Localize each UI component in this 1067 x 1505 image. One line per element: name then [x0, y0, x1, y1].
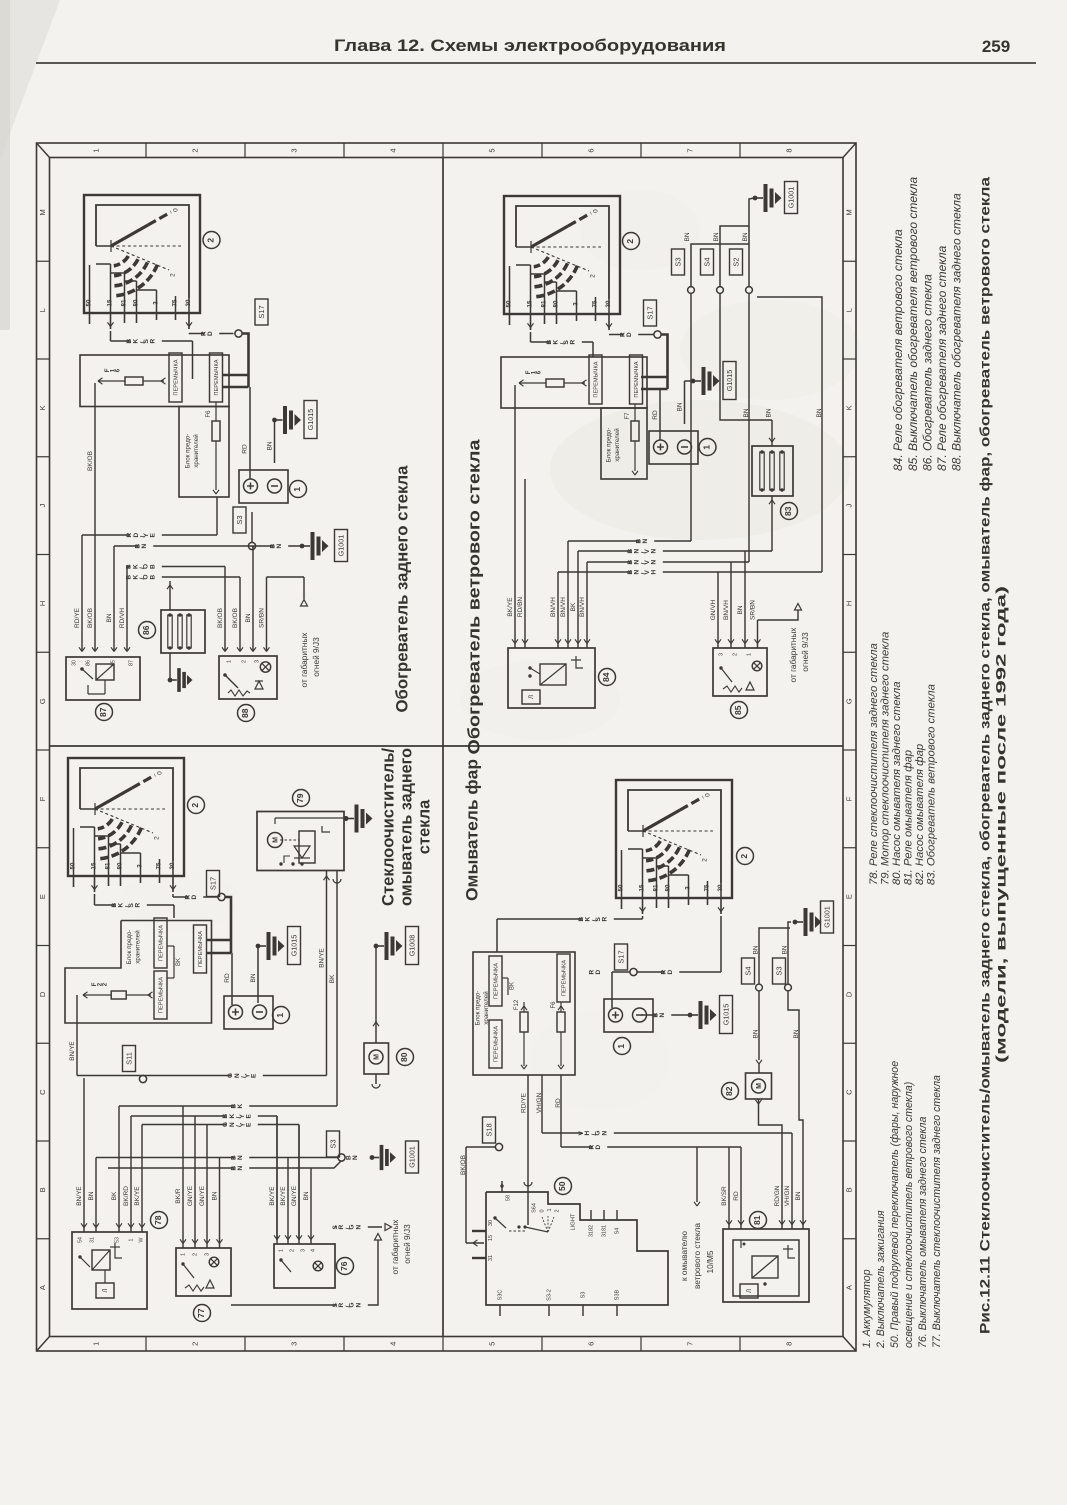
svg-text:BN: BN [635, 537, 649, 544]
svg-text:2: 2 [190, 803, 200, 808]
svg-text:30: 30 [717, 884, 724, 891]
svg-text:B: B [38, 1187, 47, 1192]
svg-text:ПЕРЕМЫЧКА: ПЕРЕМЫЧКА [159, 925, 165, 961]
svg-text:Обогреватель ветрового стекла: Обогреватель ветрового стекла [464, 439, 483, 755]
svg-text:Обогреватель заднего стекла: Обогреватель заднего стекла [392, 465, 411, 713]
svg-text:ПЕРЕМЫЧКА: ПЕРЕМЫЧКА [214, 359, 220, 395]
svg-text:15: 15 [527, 300, 534, 307]
svg-text:1: 1 [91, 1342, 100, 1346]
svg-text:1: 1 [275, 1013, 285, 1018]
svg-text:0: 0 [593, 209, 600, 213]
svg-text:GN/YE: GN/YE [187, 1185, 194, 1206]
svg-text:BN: BN [245, 613, 252, 622]
svg-text:A: A [844, 1285, 853, 1290]
svg-text:1: 1 [91, 148, 100, 152]
svg-text:2: 2 [154, 836, 161, 840]
svg-text:58: 58 [505, 1195, 511, 1201]
svg-text:F16: F16 [526, 369, 543, 374]
svg-text:Блок предо-: Блок предо- [185, 434, 192, 469]
svg-text:BN: BN [713, 232, 720, 241]
svg-text:80: 80 [399, 1052, 409, 1062]
svg-text:81: 81 [105, 862, 112, 869]
svg-text:RD/VH: RD/VH [119, 608, 126, 629]
svg-text:BN: BN [88, 1191, 95, 1200]
svg-text:M: M [756, 1083, 763, 1089]
svg-text:80. Насос омывателя заднего с: 80. Насос омывателя заднего стекла [891, 682, 903, 885]
svg-text:5: 5 [487, 148, 496, 152]
svg-text:75: 75 [592, 300, 599, 307]
svg-text:S3C: S3C [497, 1290, 503, 1301]
svg-text:S18: S18 [484, 1123, 493, 1136]
svg-text:1: 1 [616, 1044, 626, 1049]
svg-text:5: 5 [487, 1342, 496, 1346]
svg-text:BK: BK [570, 602, 577, 611]
svg-text:J: J [38, 504, 47, 508]
svg-text:G1015: G1015 [306, 409, 315, 431]
svg-text:BK/OB: BK/OB [232, 608, 239, 628]
svg-text:83: 83 [783, 506, 793, 516]
svg-text:освещение и стеклоочиститель в: освещение и стеклоочиститель ветрового с… [903, 1082, 915, 1348]
svg-text:30: 30 [169, 862, 176, 869]
svg-text:BN/VH: BN/VH [723, 600, 730, 620]
svg-text:S3: S3 [580, 1292, 586, 1299]
svg-text:C: C [844, 1089, 853, 1095]
svg-text:1: 1 [278, 1249, 284, 1252]
svg-text:80: 80 [665, 884, 672, 891]
svg-text:RD: RD [733, 1191, 740, 1201]
svg-text:84: 84 [601, 672, 611, 682]
svg-text:15: 15 [91, 862, 98, 869]
svg-text:80: 80 [553, 300, 560, 307]
svg-text:88: 88 [240, 708, 250, 718]
svg-text:75: 75 [156, 862, 163, 869]
svg-text:RD: RD [555, 1098, 562, 1108]
svg-text:LIGHT: LIGHT [571, 1213, 577, 1231]
svg-text:50: 50 [557, 1181, 567, 1191]
svg-text:86. Обогреватель заднего стек: 86. Обогреватель заднего стекла [920, 274, 934, 471]
svg-text:BK/SR: BK/SR [721, 1186, 728, 1206]
svg-text:77. Выключатель стеклоочистит: 77. Выключатель стеклоочистителя заднего… [931, 1075, 943, 1348]
svg-text:BK: BK [230, 1102, 244, 1109]
svg-text:83. Обогреватель ветрового ст: 83. Обогреватель ветрового стекла [925, 684, 937, 885]
svg-text:0: 0 [705, 793, 712, 797]
svg-text:4: 4 [310, 1249, 316, 1252]
svg-text:F16: F16 [105, 367, 122, 372]
svg-text:Омыватель фар: Омыватель фар [462, 759, 481, 901]
svg-text:D: D [38, 991, 47, 997]
svg-text:W: W [138, 1237, 144, 1242]
svg-text:7: 7 [685, 148, 694, 152]
svg-text:стекла: стекла [415, 799, 433, 854]
svg-text:3: 3 [137, 864, 144, 868]
svg-text:3: 3 [300, 1249, 306, 1252]
svg-text:2: 2 [192, 1253, 198, 1256]
svg-text:BN: BN [684, 232, 691, 241]
svg-text:0: 0 [173, 208, 180, 212]
svg-text:10/М5: 10/М5 [705, 1250, 715, 1273]
svg-text:BN: BN [743, 408, 750, 417]
svg-text:0: 0 [157, 771, 164, 775]
svg-text:Глава 12. Схемы электрооборудо: Глава 12. Схемы электрооборудования [334, 36, 726, 55]
svg-text:3: 3 [153, 301, 160, 305]
svg-text:L: L [844, 308, 853, 312]
svg-text:86: 86 [85, 660, 91, 666]
svg-text:81: 81 [541, 300, 548, 307]
svg-text:E: E [38, 894, 47, 899]
svg-text:RD: RD [619, 330, 633, 337]
svg-text:BN: BN [212, 1191, 219, 1200]
svg-text:S17: S17 [645, 306, 654, 319]
svg-text:79: 79 [295, 793, 305, 803]
svg-text:хранителей: хранителей [483, 991, 490, 1025]
svg-text:BN: BN [250, 973, 257, 982]
svg-text:G: G [844, 698, 853, 704]
svg-text:ПЕРЕМЫЧКА: ПЕРЕМЫЧКА [159, 977, 165, 1013]
svg-text:RD/BN: RD/BN [517, 597, 524, 618]
svg-text:75: 75 [172, 299, 179, 306]
svg-text:76. Выключатель омывателя зад: 76. Выключатель омывателя заднего стекла [917, 1116, 929, 1348]
svg-text:GN/YE: GN/YE [199, 1185, 206, 1206]
svg-text:BN/VH: BN/VH [560, 597, 567, 617]
svg-text:Рис.12.11 Стеклоочиститель/омы: Рис.12.11 Стеклоочиститель/омыватель зад… [977, 177, 993, 1334]
svg-text:15: 15 [488, 1235, 494, 1241]
svg-text:BN: BN [737, 605, 744, 614]
svg-text:H: H [38, 601, 47, 606]
svg-text:BN: BN [345, 1153, 359, 1160]
svg-text:от габаритных: от габаритных [299, 632, 309, 688]
svg-text:81. Реле омывателя фар: 81. Реле омывателя фар [902, 750, 914, 885]
svg-text:RD: RD [660, 968, 674, 975]
svg-text:4: 4 [388, 1342, 397, 1346]
svg-text:3: 3 [289, 148, 298, 152]
svg-text:RD/YE: RD/YE [74, 607, 81, 628]
svg-text:78: 78 [153, 1215, 163, 1225]
svg-text:RD: RD [184, 893, 198, 900]
svg-text:7: 7 [685, 1342, 694, 1346]
svg-text:87: 87 [128, 660, 134, 666]
svg-text:15: 15 [107, 299, 114, 306]
svg-text:S2: S2 [731, 257, 740, 266]
svg-text:0: 0 [539, 1209, 545, 1212]
svg-text:S17: S17 [257, 305, 266, 318]
svg-text:1: 1 [547, 1208, 553, 1211]
svg-text:VH/GN: VH/GN [784, 1185, 791, 1206]
svg-text:BN: BN [230, 1153, 244, 1160]
svg-text:L: L [38, 308, 47, 312]
svg-text:80: 80 [133, 299, 140, 306]
svg-text:огней 9/J3: огней 9/J3 [402, 1224, 412, 1264]
svg-text:2: 2 [190, 148, 199, 152]
svg-text:BN/YE: BN/YE [69, 1041, 76, 1061]
svg-text:31: 31 [488, 1255, 494, 1261]
svg-text:84. Реле обогревателя ветрово: 84. Реле обогревателя ветрового стекла [891, 229, 905, 471]
svg-text:81: 81 [121, 299, 128, 306]
svg-text:2: 2 [702, 858, 709, 862]
svg-text:BK/OB: BK/OB [460, 1155, 467, 1175]
svg-text:81: 81 [653, 884, 660, 891]
svg-text:BN: BN [793, 1029, 800, 1038]
svg-text:F12: F12 [514, 999, 520, 1010]
svg-text:Л: Л [529, 695, 535, 699]
svg-text:BK/YE: BK/YE [280, 1186, 287, 1206]
svg-text:3181: 3181 [601, 1225, 607, 1237]
svg-text:M: M [38, 209, 47, 215]
svg-text:2: 2 [739, 854, 749, 859]
svg-text:BN: BN [230, 1164, 244, 1171]
svg-text:RD: RD [242, 444, 249, 454]
svg-text:F: F [844, 796, 853, 801]
svg-text:Блок предо-: Блок предо- [606, 428, 613, 463]
svg-text:от габаритных: от габаритных [390, 1219, 400, 1275]
svg-text:1: 1 [180, 1253, 186, 1256]
svg-text:ПЕРЕМЫЧКА: ПЕРЕМЫЧКА [494, 963, 500, 999]
svg-text:87. Реле обогревателя заднего: 87. Реле обогревателя заднего стекла [935, 245, 949, 471]
svg-text:8: 8 [784, 148, 793, 152]
svg-text:D: D [844, 991, 853, 997]
svg-text:ветрового стекла: ветрового стекла [692, 1223, 702, 1289]
svg-text:S4: S4 [743, 966, 752, 975]
svg-text:S3-2: S3-2 [546, 1289, 552, 1301]
svg-text:G: G [38, 698, 47, 704]
svg-text:80: 80 [117, 862, 124, 869]
svg-text:30: 30 [185, 299, 192, 306]
svg-text:BK/OB: BK/OB [87, 608, 94, 628]
svg-text:50: 50 [506, 300, 513, 307]
svg-text:3: 3 [573, 302, 580, 306]
svg-text:75: 75 [704, 884, 711, 891]
svg-text:78. Реле стеклоочистителя зад: 78. Реле стеклоочистителя заднего стекла [868, 643, 880, 885]
svg-text:BN/YE: BN/YE [76, 1186, 83, 1206]
svg-text:79. Мотор стеклоочистителя за: 79. Мотор стеклоочистителя заднего стекл… [879, 632, 891, 885]
svg-text:омыватель заднего: омыватель заднего [397, 748, 415, 906]
svg-text:ПЕРЕМЫЧКА: ПЕРЕМЫЧКА [494, 1026, 500, 1062]
svg-text:ПЕРЕМЫЧКА: ПЕРЕМЫЧКА [562, 960, 568, 996]
svg-text:G1015: G1015 [725, 370, 734, 392]
svg-text:53: 53 [114, 1237, 120, 1243]
svg-text:50: 50 [86, 299, 93, 306]
svg-text:S3: S3 [328, 1139, 337, 1148]
svg-text:Стеклоочиститель/: Стеклоочиститель/ [379, 748, 397, 906]
svg-text:31: 31 [89, 1237, 95, 1243]
svg-text:A: A [38, 1285, 47, 1290]
svg-text:BN: BN [795, 1191, 802, 1200]
svg-text:BK/OB: BK/OB [87, 451, 94, 471]
svg-text:K: K [38, 405, 47, 410]
svg-text:F6: F6 [551, 1001, 557, 1009]
svg-text:RD: RD [652, 410, 659, 420]
svg-text:VH/GN: VH/GN [536, 1092, 543, 1113]
svg-text:K: K [844, 405, 853, 410]
svg-text:огней 9/J3: огней 9/J3 [800, 632, 810, 672]
svg-text:BN/YE: BN/YE [319, 948, 326, 968]
svg-text:G1008: G1008 [407, 935, 416, 957]
svg-text:85: 85 [733, 705, 743, 715]
svg-text:F7: F7 [625, 412, 631, 420]
svg-text:1: 1 [226, 660, 232, 663]
svg-text:2: 2 [190, 1342, 199, 1346]
svg-text:87: 87 [98, 707, 108, 717]
svg-text:от габаритных: от габаритных [788, 627, 798, 683]
svg-text:GN/VH: GN/VH [710, 599, 717, 620]
svg-text:ПЕРЕМЫЧКА: ПЕРЕМЫЧКА [594, 361, 600, 397]
svg-text:S4: S4 [614, 1228, 620, 1235]
svg-text:81: 81 [752, 1215, 762, 1225]
svg-text:S64: S64 [531, 1203, 537, 1213]
svg-text:F22: F22 [92, 981, 109, 986]
svg-text:2: 2 [625, 239, 635, 244]
svg-text:BN: BN [753, 945, 760, 954]
svg-text:ПЕРЕМЫЧКА: ПЕРЕМЫЧКА [634, 361, 640, 397]
svg-text:BN/VH: BN/VH [579, 597, 586, 617]
svg-text:BN: BN [816, 408, 823, 417]
svg-text:S4: S4 [702, 257, 711, 266]
svg-text:SR/BN: SR/BN [259, 608, 266, 628]
svg-text:хранителей: хранителей [614, 428, 621, 462]
svg-text:S3B: S3B [614, 1289, 620, 1300]
svg-text:BN: BN [766, 408, 773, 417]
svg-text:GN/YE: GN/YE [291, 1185, 298, 1206]
svg-text:BN: BN [753, 1029, 760, 1038]
svg-text:3: 3 [718, 653, 724, 656]
svg-text:M: M [844, 209, 853, 215]
svg-text:3: 3 [289, 1342, 298, 1346]
svg-text:G1001: G1001 [407, 1146, 416, 1168]
svg-text:F6: F6 [206, 410, 212, 418]
svg-text:S17: S17 [208, 877, 217, 890]
svg-text:Блок предо-: Блок предо- [475, 991, 482, 1026]
svg-text:E: E [844, 894, 853, 899]
svg-text:86: 86 [141, 625, 151, 635]
svg-text:6: 6 [586, 1342, 595, 1346]
svg-text:ПЕРЕМЫЧКА: ПЕРЕМЫЧКА [198, 931, 204, 967]
svg-text:2: 2 [732, 653, 738, 656]
svg-text:BN: BN [269, 542, 283, 549]
svg-text:Л: Л [747, 1289, 753, 1293]
svg-text:82: 82 [724, 1086, 734, 1096]
svg-text:RD: RD [588, 968, 602, 975]
svg-text:BN: BN [267, 441, 274, 450]
svg-text:2: 2 [206, 238, 216, 243]
svg-text:30: 30 [605, 300, 612, 307]
svg-text:BN: BN [742, 232, 749, 241]
svg-text:BK: BK [329, 974, 336, 983]
svg-text:2: 2 [289, 1249, 295, 1252]
svg-text:50. Правый подрулевой переклю: 50. Правый подрулевой переключатель (фар… [889, 1061, 901, 1348]
svg-text:Блок предо-: Блок предо- [126, 930, 133, 965]
svg-text:85. Выключатель обогревателя: 85. Выключатель обогревателя ветрового с… [906, 177, 920, 471]
svg-text:BN: BN [303, 1191, 310, 1200]
svg-text:RD: RD [200, 329, 214, 336]
svg-text:BN/VH: BN/VH [550, 597, 557, 617]
svg-text:1: 1 [128, 1238, 134, 1241]
svg-text:6: 6 [586, 148, 595, 152]
svg-text:15: 15 [639, 884, 646, 891]
svg-text:54: 54 [77, 1237, 83, 1243]
svg-text:2. Выключатель зажигания: 2. Выключатель зажигания [875, 1210, 887, 1349]
svg-text:1: 1 [702, 445, 712, 450]
svg-text:BN: BN [652, 1011, 666, 1018]
svg-text:S17: S17 [616, 950, 625, 963]
svg-text:G1001: G1001 [786, 187, 795, 209]
svg-text:1: 1 [746, 653, 752, 656]
svg-text:хранителей: хранителей [193, 434, 200, 468]
svg-text:2: 2 [590, 274, 597, 278]
svg-text:ПЕРЕМЫЧКА: ПЕРЕМЫЧКА [174, 359, 180, 395]
svg-text:BK/YE: BK/YE [507, 597, 514, 617]
svg-text:RD/YE: RD/YE [521, 1092, 528, 1113]
svg-text:M: M [272, 837, 279, 843]
svg-text:2: 2 [170, 273, 177, 277]
svg-text:BK/R: BK/R [175, 1188, 182, 1203]
svg-text:к омывателю: к омывателю [679, 1231, 689, 1281]
svg-text:C: C [38, 1089, 47, 1095]
svg-text:H: H [844, 601, 853, 606]
svg-text:G1015: G1015 [721, 1004, 730, 1026]
svg-text:RD/GN: RD/GN [774, 1185, 781, 1206]
svg-text:BN: BN [782, 945, 789, 954]
svg-text:76: 76 [339, 1261, 349, 1271]
svg-text:BK/YE: BK/YE [134, 1186, 141, 1206]
svg-text:88. Выключатель обогревателя: 88. Выключатель обогревателя заднего сте… [950, 193, 964, 471]
svg-text:(модели, выпущенные после 1992: (модели, выпущенные после 1992 года) [993, 586, 1009, 1063]
svg-text:259: 259 [982, 37, 1010, 56]
svg-text:3: 3 [204, 1253, 210, 1256]
svg-text:BK/YE: BK/YE [269, 1186, 276, 1206]
svg-text:S3: S3 [235, 515, 244, 524]
svg-text:RD: RD [224, 973, 231, 983]
svg-text:3: 3 [254, 660, 260, 663]
svg-text:огней 9/J3: огней 9/J3 [311, 637, 321, 677]
svg-text:8: 8 [784, 1342, 793, 1346]
svg-text:BK: BK [111, 1191, 118, 1200]
svg-text:3: 3 [685, 886, 692, 890]
svg-text:BK: BK [176, 958, 182, 966]
svg-text:SR/BN: SR/BN [750, 600, 757, 620]
svg-text:77: 77 [196, 1308, 206, 1318]
svg-text:BN: BN [134, 542, 148, 549]
svg-text:J: J [844, 504, 853, 508]
svg-text:S3: S3 [774, 966, 783, 975]
svg-text:S3: S3 [673, 257, 682, 266]
svg-text:50: 50 [70, 862, 77, 869]
svg-text:G1015: G1015 [289, 935, 298, 957]
svg-text:G1001: G1001 [822, 906, 831, 928]
svg-text:BN: BN [677, 402, 684, 411]
svg-text:RD: RD [588, 1143, 602, 1150]
svg-text:F: F [38, 796, 47, 801]
svg-text:30: 30 [71, 660, 77, 666]
svg-text:3182: 3182 [588, 1225, 594, 1237]
svg-text:BK: BK [510, 982, 516, 990]
svg-text:1. Аккумулятор: 1. Аккумулятор [861, 1269, 873, 1348]
svg-text:хранителей: хранителей [135, 930, 142, 964]
svg-text:50: 50 [618, 884, 625, 891]
svg-text:M: M [373, 1054, 380, 1060]
svg-text:BK/OB: BK/OB [217, 608, 224, 628]
svg-text:2: 2 [554, 1209, 560, 1212]
svg-text:G1001: G1001 [336, 535, 345, 557]
svg-text:30: 30 [488, 1220, 494, 1226]
svg-text:1: 1 [292, 487, 302, 492]
svg-text:4: 4 [388, 148, 397, 152]
svg-text:BK/RD: BK/RD [123, 1186, 130, 1206]
svg-text:S11: S11 [124, 1052, 133, 1065]
svg-text:82. Насос омывателя фар: 82. Насос омывателя фар [914, 744, 926, 885]
svg-text:BN: BN [106, 613, 113, 622]
svg-text:B: B [844, 1187, 853, 1192]
svg-text:2: 2 [241, 660, 247, 663]
svg-text:Л: Л [103, 1288, 109, 1292]
